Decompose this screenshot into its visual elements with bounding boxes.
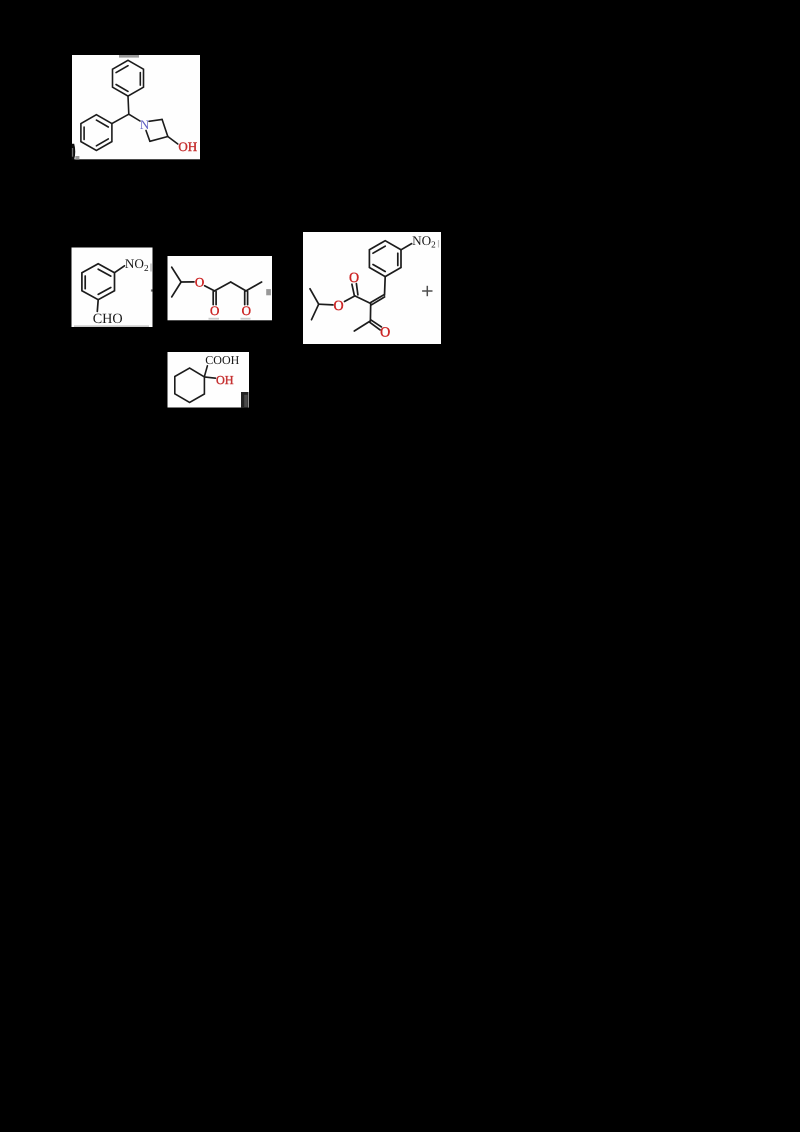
svg-text:COOH: COOH: [205, 353, 239, 367]
svg-text:CHO: CHO: [93, 311, 123, 327]
svg-text:O: O: [242, 303, 251, 318]
svg-text:O: O: [349, 271, 359, 286]
svg-text:OH: OH: [216, 373, 234, 387]
svg-text:O: O: [195, 275, 204, 290]
svg-text:N: N: [140, 117, 150, 132]
svg-text:OH: OH: [178, 139, 197, 154]
svg-text:O: O: [210, 303, 219, 318]
svg-text:O: O: [333, 299, 343, 314]
svg-text:O: O: [380, 325, 390, 340]
